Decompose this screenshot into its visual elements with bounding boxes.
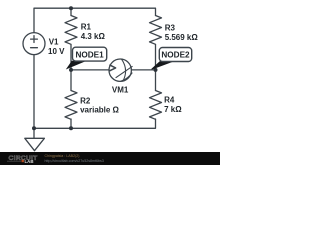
node flag NODE1 box <box>73 47 107 61</box>
svg-text:variable Ω: variable Ω <box>80 106 119 115</box>
wire right branch middle (R3 bottom to R4 top) <box>155 45 157 91</box>
V1 minus sign <box>31 47 38 49</box>
ground <box>25 128 45 150</box>
wire left branch middle (R1 bottom to R2 top) <box>70 45 72 91</box>
node flag NODE1 tail <box>67 61 85 68</box>
svg-text:5.569 kΩ: 5.569 kΩ <box>165 33 199 42</box>
svg-text:R4: R4 <box>164 96 175 105</box>
node flag NODE2 tail <box>152 62 173 70</box>
resistor R1 <box>65 16 77 45</box>
resistor R3 <box>150 16 162 45</box>
voltage source V1 circle <box>23 33 45 55</box>
voltmeter arrow > <box>110 65 116 71</box>
svg-text:Chingpaisia : LAB2(2): Chingpaisia : LAB2(2) <box>45 154 80 158</box>
watermark logo strike line <box>7 160 21 162</box>
voltmeter lower arc <box>121 73 132 81</box>
junction node B (NODE2) <box>154 68 158 72</box>
svg-text:R3: R3 <box>165 24 176 33</box>
svg-text:NODE2: NODE2 <box>161 51 190 60</box>
svg-text:4.3 kΩ: 4.3 kΩ <box>81 32 106 41</box>
wire bottom rail <box>34 119 156 128</box>
wire R2 bottom lead <box>70 119 72 128</box>
node flag NODE2 box <box>159 48 191 62</box>
watermark bar <box>0 152 220 165</box>
svg-text:R2: R2 <box>80 96 91 105</box>
svg-text:R1: R1 <box>81 23 92 32</box>
voltmeter dial arc <box>122 60 126 81</box>
resistor R2 <box>65 91 77 120</box>
V1 plus sign <box>31 36 38 43</box>
svg-text:LAB: LAB <box>25 159 34 164</box>
wire top rail to R1 <box>70 8 72 15</box>
svg-text:V1: V1 <box>49 38 59 47</box>
voltmeter VM1 circle <box>109 59 131 81</box>
wire bridge left (NODE1 to voltmeter) <box>71 69 109 71</box>
svg-text:7 kΩ: 7 kΩ <box>164 105 182 114</box>
junction bottom rail / R2 <box>69 126 73 130</box>
junction top rail / R1 <box>69 6 73 10</box>
voltmeter needle <box>116 66 132 77</box>
junction bottom rail / ground <box>32 126 36 130</box>
wire top rail <box>34 8 156 32</box>
watermark logo LAB accent <box>22 160 24 162</box>
wire V1 bottom to bottom rail <box>33 55 35 129</box>
resistor R4 <box>150 91 162 120</box>
wire bridge right (voltmeter to NODE2) <box>131 69 155 71</box>
svg-text:10 V: 10 V <box>48 47 65 56</box>
svg-text:http;//circuitlab.com/c27u52s8: http;//circuitlab.com/c27u52s8mt6bs3 <box>45 159 104 163</box>
svg-text:NODE1: NODE1 <box>75 50 104 59</box>
junction node A (NODE1) <box>69 68 73 72</box>
svg-text:VM1: VM1 <box>112 85 129 94</box>
